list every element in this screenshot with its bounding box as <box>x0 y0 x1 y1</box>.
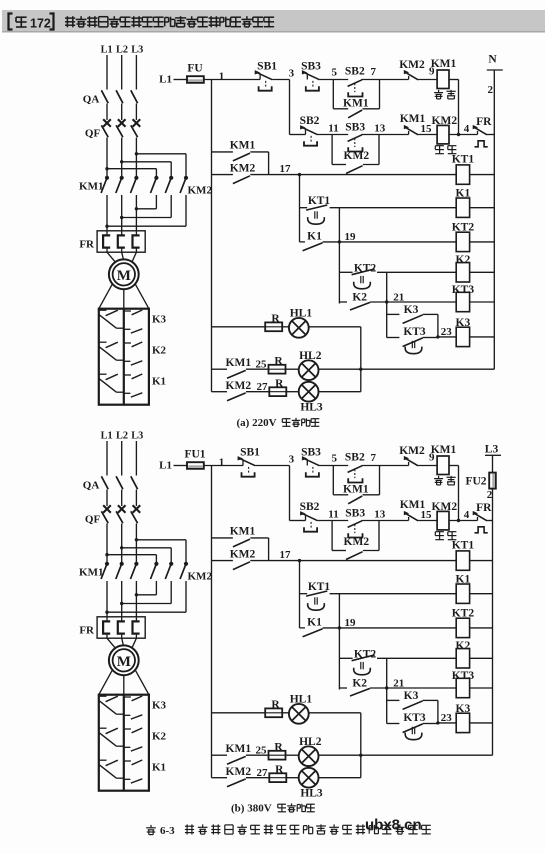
label R HL1 (b) <box>271 699 280 711</box>
label KM1 coil (b) <box>431 444 457 456</box>
contactor KM1 main contact pole 2 (b) <box>116 562 124 579</box>
contact KM1 NC interlock (a) <box>404 125 418 135</box>
svg-text:(a) 220V: (a) 220V <box>237 417 277 429</box>
wire branch L2 to KM2 pole2 (a) <box>122 161 172 163</box>
wire KM2NC to coil KM1 (a) <box>418 79 437 81</box>
label KM1 main (a) <box>79 181 103 193</box>
thermal relay FR box (b) <box>97 617 145 638</box>
junction crossback pole1 (a) <box>135 207 138 210</box>
wire HL1 row left (a) <box>212 326 266 328</box>
wire KM2 pole2 output (b) <box>170 581 172 604</box>
svg-text:KM2: KM2 <box>344 536 370 548</box>
wire L1 to fuse (b) <box>174 465 188 467</box>
lamp HL2 (a) <box>299 360 319 380</box>
wire ladder rise 2 (b) <box>386 658 388 688</box>
svg-text:R: R <box>271 699 280 711</box>
pushbutton SB1 NC stop (a) <box>255 70 273 91</box>
junction node 4 (a) <box>457 133 460 136</box>
wire K3 coil to bus (b) <box>470 722 493 724</box>
wire FR to right bus (b) <box>487 520 493 522</box>
junction node 19 (b) <box>338 626 341 629</box>
svg-text:25: 25 <box>256 744 268 756</box>
label KT2 contact (a) <box>354 263 377 275</box>
wire KT3 coil to bus (a) <box>470 301 495 303</box>
wire KT3 row right (a) <box>423 337 438 339</box>
label FR main (a) <box>79 239 95 251</box>
svg-text:7: 7 <box>370 452 376 464</box>
svg-text:HL3: HL3 <box>300 788 323 800</box>
junction lamp bus (b) <box>359 754 362 757</box>
label SB1 (a) <box>257 61 277 73</box>
svg-text:SB1: SB1 <box>257 61 277 73</box>
wire KT2 coil to bus (a) <box>470 241 495 243</box>
node 5 (b) <box>331 453 337 465</box>
wire phase 2 QA-QF (a) <box>121 104 123 121</box>
svg-text:FR: FR <box>476 502 492 514</box>
coil KT2 (b) <box>456 618 469 637</box>
svg-text:27: 27 <box>257 767 269 779</box>
wire HL2 to right bus (b) <box>318 754 492 756</box>
wire branch L2 to KM2 pole2 (b) <box>122 547 172 549</box>
label QF (a) <box>85 128 101 140</box>
label R HL2 (a) <box>274 356 283 368</box>
svg-text:15: 15 <box>421 509 433 521</box>
wire KT3 stub (b) <box>387 723 400 725</box>
wire node21 row (a) <box>370 301 456 303</box>
label xia-jiang (down) (a) <box>435 146 456 154</box>
svg-text:21: 21 <box>393 677 404 689</box>
node 25 (b) <box>256 744 268 756</box>
svg-text:23: 23 <box>441 326 453 338</box>
contact KT2 delayed NO (a) <box>352 269 375 289</box>
wire drop to node4 (a) <box>458 80 460 135</box>
label K3 coil (b) <box>456 703 471 715</box>
thermal contact FR NC (a) <box>473 125 488 147</box>
svg-text:KM1: KM1 <box>79 181 103 193</box>
svg-text:KM2: KM2 <box>188 571 213 583</box>
wire L1 to fuse (a) <box>174 79 188 81</box>
wire K1 coil row (b) <box>330 593 457 595</box>
wire R2 to HL2 (a) <box>285 368 299 370</box>
wire phase 2 supply (a) <box>121 55 123 90</box>
svg-text:L3: L3 <box>131 431 143 442</box>
svg-text:QA: QA <box>83 94 100 106</box>
wire node13 drop (b) <box>378 521 380 551</box>
lamp HL2 (b) <box>299 746 319 766</box>
svg-text:L1: L1 <box>159 74 172 86</box>
wire phase 2 supply (b) <box>121 441 123 476</box>
wire ladder drop 2 (a) <box>338 242 340 304</box>
wire node17 row (a) <box>250 174 456 176</box>
wire branch KM1 left (b) <box>333 494 348 496</box>
wire branch L1 to KM2 pole1 (a) <box>107 168 156 170</box>
wire drop to node4 (b) <box>458 466 460 521</box>
coil K2 (a) <box>456 263 469 282</box>
svg-text:19: 19 <box>345 231 357 243</box>
contactor KM2 main contact pole 1 (a) <box>151 176 159 193</box>
svg-text:21: 21 <box>393 291 404 303</box>
node L2 phase label (a) <box>116 45 128 56</box>
wire KM2 pole1 output (b) <box>155 581 157 595</box>
svg-text:KM1: KM1 <box>230 526 256 538</box>
svg-text:K3: K3 <box>456 317 471 329</box>
svg-text:25: 25 <box>256 358 268 370</box>
label SB2 row1 (b) <box>345 452 365 464</box>
svg-text:K1: K1 <box>152 376 166 388</box>
node 3 (a) <box>289 67 295 79</box>
coil K3 (b) <box>456 713 469 732</box>
contact KT3 delayed NO (b) <box>403 724 423 740</box>
wire KT1 coil to bus (a) <box>470 174 495 176</box>
header text 【例172】 <box>9 14 54 31</box>
label K1 contact (a) <box>307 230 322 242</box>
svg-text:KM2: KM2 <box>432 115 458 127</box>
wire crossback pole2 (a) <box>122 217 172 219</box>
disconnect switch QA (b) <box>101 476 137 489</box>
wire KM2NC to coil KM1 (b) <box>418 465 437 467</box>
svg-text:QF: QF <box>85 128 101 140</box>
svg-text:K2: K2 <box>152 731 167 743</box>
lamp HL1 (b) <box>289 704 309 724</box>
wire crossback pole3 (a) <box>107 225 186 227</box>
wire phase 3 supply (b) <box>135 441 137 476</box>
label KM2 coil (a) <box>432 115 458 127</box>
pushbutton SB2 NC stop row2 (a) <box>300 125 318 146</box>
label KM2 timing (b) <box>230 548 256 560</box>
wire KM2 row from bus (b) <box>212 560 233 562</box>
resistor R HL1 (b) <box>265 708 282 717</box>
svg-text:HL3: HL3 <box>300 402 323 414</box>
label SB3 row2 (a) <box>345 122 365 134</box>
circuit breaker QF (b) <box>101 511 137 523</box>
label KM1 interlock (b) <box>400 499 426 511</box>
resistor section K3 shorting contacts (a) <box>99 310 143 333</box>
label KM1 coil (a) <box>431 58 457 70</box>
wire KM2 pole3 output (a) <box>185 195 187 226</box>
node L3 phase label (b) <box>131 431 143 442</box>
wire SB2 to node 7 (b) <box>361 465 408 467</box>
wire K2 coil row (a) <box>377 271 456 273</box>
wire KM2 to R3 (a) <box>246 391 269 393</box>
wire K2 coil to bus (a) <box>470 271 495 273</box>
wire HL3 to drop (b) <box>318 777 360 779</box>
wire ladder rise 1 (b) <box>338 594 340 628</box>
coil KM2 (down) (b) <box>437 511 449 530</box>
node 5 (a) <box>331 67 337 79</box>
wire K1 coil row (a) <box>330 207 457 209</box>
svg-text:R: R <box>271 313 280 325</box>
svg-text:SB1: SB1 <box>240 447 260 459</box>
wire join vertical (b) <box>268 538 270 561</box>
wire coil KM2 out (a) <box>449 134 478 136</box>
label K2 contact (b) <box>352 678 367 690</box>
wire K1 coil to bus (a) <box>470 207 495 209</box>
wire SB3 to KM1NC (b) <box>361 520 408 522</box>
svg-text:SB3: SB3 <box>301 61 321 73</box>
wire FR to motor 3 (b) <box>132 638 137 648</box>
wire FR to right bus (a) <box>487 134 494 136</box>
svg-text:KM2: KM2 <box>226 380 252 392</box>
junction phase2 branch (b) <box>120 546 123 549</box>
wire ladder drop 2 (b) <box>338 628 340 690</box>
label KT1 contact (b) <box>308 581 331 593</box>
wire motor rotor 1 (a) <box>99 284 113 309</box>
contact KM1 NO timing (a) <box>233 153 250 161</box>
label K2 resistor section (a) <box>152 345 167 357</box>
junction node 23 (b) <box>436 721 439 724</box>
svg-text:K1: K1 <box>307 616 322 628</box>
label KM2 lamp (a) <box>226 380 252 392</box>
label QA (a) <box>83 94 100 106</box>
label R HL2 (b) <box>274 742 283 754</box>
svg-text:KM2: KM2 <box>399 445 425 457</box>
junction node 4 (b) <box>457 519 460 522</box>
disconnect switch QA (a) <box>101 90 137 103</box>
wire KT2 coil to bus (b) <box>470 627 493 629</box>
svg-text:M: M <box>117 654 131 670</box>
junction phase1 branch (a) <box>105 167 108 170</box>
svg-text:17: 17 <box>280 163 292 175</box>
wire KT2 stub (b) <box>339 657 352 659</box>
wire KM1 row to join (b) <box>250 537 268 539</box>
contactor KM1 main contact pole 2 (a) <box>116 176 124 193</box>
thermal relay FR heater element 2 (b) <box>118 617 125 638</box>
svg-text:19: 19 <box>345 617 357 629</box>
svg-text:R: R <box>275 378 284 390</box>
wire R3 to HL3 (b) <box>286 777 299 779</box>
svg-text:KM1: KM1 <box>226 743 252 755</box>
wire KT3 coil to bus (b) <box>470 687 493 689</box>
wire KM2 pole1 output (a) <box>155 195 157 209</box>
label KT3 coil (a) <box>452 284 475 296</box>
svg-text:HL1: HL1 <box>290 694 313 706</box>
wire motor rotor 2 (b) <box>123 675 125 695</box>
wire N terminal tick (a) <box>487 69 503 71</box>
svg-text:K2: K2 <box>456 640 471 652</box>
svg-text:4: 4 <box>464 123 470 135</box>
wire K3 stub (a) <box>387 313 400 315</box>
label R HL1 (a) <box>271 313 280 325</box>
label K1 contact (b) <box>307 616 322 628</box>
wire HL1 to drop (b) <box>309 712 361 714</box>
svg-text:27: 27 <box>257 381 269 393</box>
wire KT2 stub (a) <box>339 271 352 273</box>
svg-text:SB3: SB3 <box>345 508 365 520</box>
contact KM1 NO holding row1 (a) <box>348 110 362 118</box>
coil KM2 (down) (a) <box>437 125 449 143</box>
coil KT2 (a) <box>456 232 469 251</box>
svg-text:KT1: KT1 <box>452 154 475 166</box>
svg-text:KT2: KT2 <box>452 608 475 620</box>
label SB2 row2 (b) <box>300 501 320 513</box>
node 23 (b) <box>441 712 453 724</box>
wire motor rotor 3 (a) <box>135 284 149 309</box>
node 2 (a) <box>488 84 494 96</box>
contactor KM1 main contact pole 3 (b) <box>131 562 139 579</box>
wire crossback pole1 (b) <box>136 594 156 596</box>
wire SB3 to node 5 (b) <box>319 465 348 467</box>
svg-text:KT1: KT1 <box>308 581 331 593</box>
pushbutton SB2 NO up-start (a) <box>348 80 363 97</box>
contact K1 NO (a) <box>300 242 323 251</box>
contact KT1 delayed NO (b) <box>306 591 327 610</box>
wire node23 to K3 coil (a) <box>438 336 456 338</box>
wire phase 3 QF-KM1 (a) <box>135 138 137 177</box>
svg-text:K1: K1 <box>152 762 166 774</box>
wire crossback pole3 (b) <box>107 611 186 613</box>
contact KM2 NO timing (b) <box>233 562 250 570</box>
wire phase 2 QA-QF (b) <box>121 490 123 507</box>
svg-text:SB3: SB3 <box>301 447 321 459</box>
wire node19 row (a) <box>323 241 457 243</box>
wire SB2 to node 7 (a) <box>361 79 408 81</box>
svg-text:4: 4 <box>464 509 470 521</box>
wire ladder drop 3 (b) <box>386 688 388 724</box>
junction crossback pole3 (b) <box>105 611 108 614</box>
svg-text:FU: FU <box>187 63 203 75</box>
svg-text:KM1: KM1 <box>343 98 369 110</box>
label KM2 holding row2 (b) <box>344 536 370 548</box>
wire R to HL1 (b) <box>282 712 289 714</box>
label KM1 lamp (b) <box>226 743 252 755</box>
wire L3 terminal tick (b) <box>485 454 501 456</box>
wire K2 coil to bus (b) <box>470 657 493 659</box>
label K2 coil (b) <box>456 640 471 652</box>
svg-text:2: 2 <box>488 84 494 96</box>
resistor R HL1 (a) <box>265 322 282 331</box>
contact KM1 NO timing (b) <box>233 539 250 547</box>
node 2 (b) <box>487 489 493 501</box>
wire K3 row right (b) <box>423 699 438 701</box>
wire phase 3 QA-QF (a) <box>135 104 137 121</box>
wire KM1 pole 1 output (b) <box>106 581 108 617</box>
node 13 (b) <box>374 509 386 521</box>
wire stage3 join (b) <box>437 700 439 723</box>
label KT2 contact (b) <box>354 649 377 661</box>
contact KM2 NO timing (a) <box>233 176 250 184</box>
node L1 phase label (b) <box>101 431 113 442</box>
wire R3 to HL3 (a) <box>286 391 299 393</box>
label HL3 (a) <box>300 402 323 414</box>
wire KM2 to R3 (b) <box>246 777 269 779</box>
contact KM2 NC interlock (a) <box>404 70 418 80</box>
svg-text:KM1: KM1 <box>431 58 457 70</box>
wire phase 2 QF-KM1 (b) <box>121 524 123 563</box>
lamp HL1 (a) <box>289 318 309 338</box>
svg-text:HL2: HL2 <box>299 350 322 362</box>
caption (b) 380V control loop <box>231 803 315 815</box>
svg-text:HL2: HL2 <box>299 736 322 748</box>
label KM1 main (b) <box>79 567 103 579</box>
contactor KM2 main contact pole 3 (a) <box>180 176 188 193</box>
svg-text:1: 1 <box>219 71 225 83</box>
label K3 resistor section (a) <box>152 314 167 326</box>
label HL1 (b) <box>290 694 313 706</box>
node 3 (b) <box>289 453 295 465</box>
pushbutton SB3 NO down-start (a) <box>348 135 363 152</box>
label R HL3 (b) <box>275 764 284 776</box>
wire node17 row (b) <box>250 560 456 562</box>
contactor KM1 main contact pole 1 (a) <box>101 176 109 193</box>
svg-text:FR: FR <box>79 625 95 637</box>
wire branch KM2 left (a) <box>332 164 346 166</box>
wire branch KM1 right (b) <box>363 494 380 496</box>
label KT2 coil (a) <box>452 222 475 234</box>
node 17 (b) <box>280 549 292 561</box>
wire phase 3 QA-QF (b) <box>135 490 137 507</box>
node 15 (a) <box>421 123 433 135</box>
wire HL2 to right bus (a) <box>318 368 494 370</box>
wire L3 to FU2 (b) <box>492 455 494 472</box>
svg-text:17: 17 <box>280 549 292 561</box>
contactor KM1 main contact pole 1 (b) <box>101 562 109 579</box>
wire left bus (b) <box>211 466 213 778</box>
thermal relay FR heater element 2 (a) <box>118 231 125 252</box>
junction crossback pole3 (a) <box>105 225 108 228</box>
wire coil KM2 out (b) <box>449 520 478 522</box>
svg-text:L3: L3 <box>131 45 143 56</box>
header banner <box>2 10 545 33</box>
svg-text:13: 13 <box>374 123 386 135</box>
rotor resistor bank frame (b) <box>99 695 149 791</box>
label KM1 lamp (a) <box>226 357 252 369</box>
svg-text:L1: L1 <box>101 431 113 442</box>
wire SB1 to node 3 (b) <box>255 465 289 467</box>
thermal relay FR heater element 3 (a) <box>133 231 140 252</box>
wire branch KM2 right (a) <box>363 164 379 166</box>
svg-text:HL1: HL1 <box>290 308 313 320</box>
svg-text:KM1: KM1 <box>79 567 103 579</box>
label SB3 row2 (b) <box>345 508 365 520</box>
resistor section K2 shorting contacts (a) <box>99 342 143 365</box>
svg-text:KM1: KM1 <box>230 140 256 152</box>
svg-text:L2: L2 <box>116 431 128 442</box>
wire phase 1 QA-QF (b) <box>106 490 108 507</box>
svg-text:SB2: SB2 <box>345 66 365 78</box>
label SB3 row1 (b) <box>301 447 321 459</box>
label KM1 interlock (a) <box>400 113 426 125</box>
label KT3 coil (b) <box>452 670 475 682</box>
junction crossback pole1 (b) <box>135 593 138 596</box>
node L1 phase label (a) <box>101 45 113 56</box>
node 15 (b) <box>421 509 433 521</box>
wire KM2 row from bus (a) <box>212 174 233 176</box>
wire drop KM2 pole3 (a) <box>185 154 187 176</box>
wire ladder drop 3 (a) <box>386 302 388 338</box>
svg-text:KT3: KT3 <box>403 712 426 724</box>
watermark ubx8.cn <box>365 817 422 834</box>
svg-text:K2: K2 <box>152 345 167 357</box>
label R HL3 (a) <box>275 378 284 390</box>
svg-text:FR: FR <box>79 239 95 251</box>
node 7 (b) <box>370 452 376 464</box>
svg-text:K2: K2 <box>352 678 367 690</box>
wire motor rotor 1 (b) <box>99 670 113 695</box>
wire node11 drop (b) <box>331 521 333 551</box>
thermal relay FR heater element 1 (a) <box>103 231 110 252</box>
wire branch L3 to KM2 pole3 (b) <box>136 539 186 541</box>
label HL1 (a) <box>290 308 313 320</box>
label KT1 contact (a) <box>308 195 331 207</box>
svg-text:FU2: FU2 <box>465 476 486 488</box>
junction node 23 (a) <box>436 335 439 338</box>
wire node3 drop (b) <box>289 466 291 521</box>
svg-text:KT3: KT3 <box>452 670 475 682</box>
pushbutton SB3 NC (b) <box>302 456 320 477</box>
coil K3 (a) <box>456 327 469 346</box>
svg-text:1: 1 <box>219 457 225 469</box>
wire node13 drop (a) <box>378 135 380 165</box>
